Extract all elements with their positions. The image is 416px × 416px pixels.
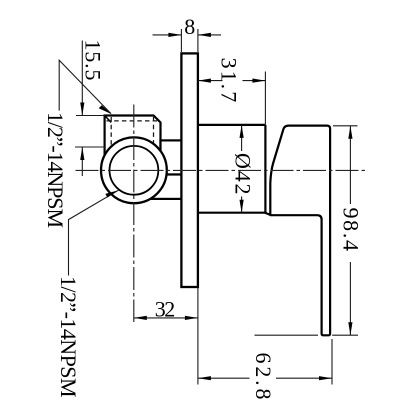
dimension 8 extension lines — [153, 29, 222, 52]
dimension 98.4 arrows — [348, 126, 352, 139]
svg-text:8: 8 — [184, 14, 195, 39]
svg-text:1/2”-14NPSM: 1/2”-14NPSM — [56, 276, 81, 398]
svg-text:98.4: 98.4 — [338, 208, 363, 252]
escutcheon base top line — [198, 124, 266, 126]
svg-text:Ø42: Ø42 — [231, 153, 256, 195]
svg-text:31.7: 31.7 — [216, 58, 241, 103]
valve body upper block — [161, 140, 183, 174]
leader NPSM bottom — [69, 190, 119, 275]
dimension 31.7 arrows — [198, 79, 211, 83]
dimension 32 arrows — [134, 316, 147, 320]
dimension 62.8 lines — [198, 339, 332, 385]
svg-text:15.5: 15.5 — [80, 40, 105, 81]
escutcheon base bottom line — [198, 212, 266, 214]
valve body lower block — [151, 175, 182, 199]
wall plate — [181, 53, 198, 287]
dimension 62.8 arrows — [198, 376, 211, 380]
vertical centerline — [133, 105, 135, 323]
dimension 15.5 lines — [75, 41, 105, 177]
dimension 15.5 arrows — [80, 103, 84, 116]
svg-text:1/2”-14NPSM: 1/2”-14NPSM — [43, 112, 68, 228]
valve outer circle — [101, 137, 167, 203]
handle lever outline — [270, 126, 330, 336]
svg-text:32: 32 — [155, 296, 176, 321]
valve inner circle — [109, 146, 158, 195]
svg-text:62.8: 62.8 — [251, 353, 276, 400]
horizontal centerline — [76, 169, 368, 171]
dimension 32 lines — [134, 288, 198, 385]
union fitting hidden thread lines — [107, 117, 160, 151]
dimension phi42 lines — [241, 125, 243, 213]
dimension 31.7 lines — [198, 72, 266, 125]
escutcheon base front edge — [265, 125, 270, 215]
union fitting outline — [105, 116, 161, 159]
dimension 8 arrows — [168, 33, 181, 37]
dimension phi42 arrows — [240, 125, 244, 138]
dimension 98.4 lines — [255, 126, 359, 335]
leader NPSM top — [59, 60, 111, 113]
